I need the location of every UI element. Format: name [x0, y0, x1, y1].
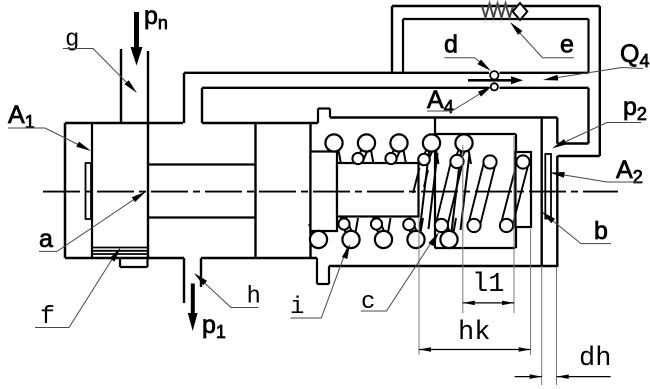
label pn — [144, 2, 168, 33]
outer spring coil circles — [310, 134, 473, 248]
inner spring coil circles — [338, 153, 529, 232]
adjuster diamond — [513, 3, 528, 20]
nozzle orifice circle A4 — [491, 83, 498, 90]
outer spring long coil band 4 — [420, 152, 438, 232]
leader Q4 — [543, 68, 643, 81]
leader c — [361, 232, 439, 311]
dimension l1 — [463, 301, 514, 306]
leader e — [510, 22, 574, 58]
leader A2 — [550, 172, 644, 182]
svg-text:c: c — [361, 289, 375, 316]
pn inlet arrow — [131, 12, 143, 66]
leader a — [39, 192, 146, 252]
seal stack f — [93, 248, 148, 255]
p2 channel bottom line — [557, 155, 600, 157]
pilot inner box — [403, 19, 589, 73]
leader h — [194, 273, 259, 308]
thin end shim plate — [545, 154, 551, 219]
leader f — [35, 248, 121, 328]
svg-text:e: e — [560, 31, 574, 59]
right spring retainer plate — [516, 152, 532, 227]
extension line hk right — [530, 229, 532, 355]
p1 port left wall — [183, 258, 185, 303]
extension line hk left — [418, 217, 420, 355]
inner spring loops — [341, 163, 528, 225]
cage top edge — [435, 133, 516, 135]
cage right wall — [515, 134, 517, 248]
bore left wall — [147, 51, 149, 258]
svg-text:f: f — [40, 302, 55, 331]
extension line dh left — [541, 266, 543, 385]
bottom alignment tab — [317, 258, 329, 284]
svg-text:b: b — [594, 217, 608, 245]
housing left wall — [309, 123, 311, 258]
centerline axis — [43, 191, 618, 193]
svg-text:dh: dh — [579, 344, 611, 374]
svg-text:hk: hk — [458, 318, 490, 348]
p1 outlet arrow — [188, 284, 198, 332]
svg-text:a: a — [39, 225, 53, 253]
svg-text:g: g — [65, 27, 79, 54]
leader b — [542, 212, 612, 244]
svg-text:h: h — [247, 284, 261, 311]
valve body left section outline — [65, 123, 318, 258]
piston rod bottom edge — [148, 216, 256, 218]
label dh — [579, 344, 611, 374]
cage left wall — [434, 118, 436, 249]
Q4 drop channel inner wall — [587, 88, 589, 144]
central spring seat block — [337, 163, 419, 217]
label d — [444, 31, 458, 59]
top alignment tab — [318, 109, 330, 124]
label b — [594, 217, 608, 245]
cage bottom edge — [435, 247, 516, 249]
label A1 — [8, 101, 35, 132]
riser pipe right wall — [201, 88, 203, 123]
leader g — [63, 49, 137, 94]
housing bottom edge — [329, 265, 557, 267]
label c — [361, 289, 375, 316]
pilot channel bottom line — [202, 87, 589, 89]
label f — [40, 302, 55, 331]
dimension dh — [515, 374, 611, 379]
label A2 — [616, 156, 643, 187]
extension line l1 right — [513, 136, 515, 313]
leader p2 — [552, 123, 641, 149]
outer spring wire sections — [309, 147, 471, 237]
p2 channel top line — [557, 142, 588, 144]
flow arrow in channel — [468, 76, 523, 84]
svg-text:i: i — [290, 294, 304, 321]
svg-text:l1: l1 — [472, 270, 504, 300]
label h — [247, 284, 261, 311]
label p2 — [623, 93, 647, 124]
leader d — [444, 58, 491, 71]
outer spring long coil band 5 — [452, 152, 470, 232]
label p1 — [202, 311, 226, 342]
p1 port right wall — [200, 258, 202, 287]
extension line l1 left — [462, 145, 464, 313]
label A4 — [427, 86, 454, 117]
chamber wall — [254, 123, 256, 258]
label l1 — [472, 270, 504, 300]
nozzle orifice circle d — [490, 71, 498, 79]
left spring retainer plate — [311, 152, 338, 232]
piston face wall — [91, 123, 93, 258]
bottom tab under body — [120, 258, 148, 267]
pilot spring zigzag e — [482, 4, 513, 18]
label e — [560, 31, 574, 59]
leader A1 — [8, 128, 91, 151]
label hk — [458, 318, 490, 348]
pilot outer box — [392, 6, 600, 156]
housing top edge — [330, 116, 557, 118]
dimension hk — [419, 347, 531, 352]
leader A4 — [427, 86, 492, 111]
piston seal thin rect — [86, 163, 92, 219]
label a — [39, 225, 53, 253]
pilot channel top line — [184, 72, 589, 74]
label Q4 — [620, 40, 649, 71]
label g — [65, 27, 79, 54]
piston rod top edge — [148, 163, 256, 165]
leader i — [291, 244, 351, 318]
riser pipe left wall — [183, 73, 185, 123]
body right edge — [556, 118, 558, 268]
label i — [290, 294, 304, 321]
pn pipe left wall — [120, 49, 122, 123]
spool sleeve wall b — [541, 118, 543, 267]
extension line dh right — [556, 267, 558, 385]
svg-text:d: d — [444, 31, 458, 59]
